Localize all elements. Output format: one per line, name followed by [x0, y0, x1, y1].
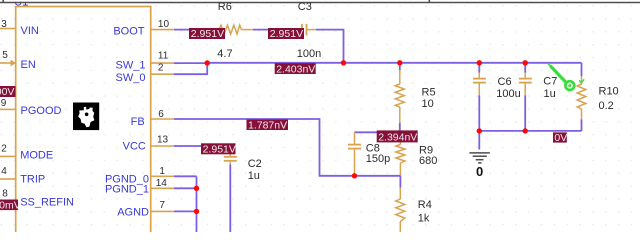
svg-text:0V: 0V: [554, 132, 567, 144]
wire VCC: [174, 146, 230, 154]
resistor R9: [396, 133, 405, 176]
svg-text:0: 0: [476, 164, 483, 179]
svg-text:8: 8: [2, 189, 8, 200]
svg-text:MODE: MODE: [20, 150, 53, 162]
svg-text:1k: 1k: [418, 212, 430, 224]
wire output bottom rail: [479, 130, 581, 132]
svg-text:SW_1: SW_1: [116, 60, 146, 72]
svg-text:3.00V: 3.00V: [0, 86, 14, 98]
wire PGND_1: [174, 187, 197, 189]
svg-text:2.951V: 2.951V: [203, 143, 236, 155]
svg-text:PGND_1: PGND_1: [105, 183, 149, 195]
node junction SW: [205, 60, 210, 65]
capacitor C8: [348, 132, 361, 175]
wire SW_0 up to SW_1: [174, 63, 207, 74]
svg-text:13: 13: [157, 135, 169, 146]
svg-text:VIN: VIN: [21, 25, 39, 37]
pin 7 stub AGND: [150, 210, 174, 212]
svg-text:BOOT: BOOT: [113, 26, 144, 38]
svg-text:R10: R10: [599, 86, 619, 98]
svg-text:10: 10: [422, 98, 434, 110]
label voltage 1.787nV FB: [247, 120, 289, 132]
pin 9 stub PGOOD: [0, 108, 16, 110]
pin 3 stub VIN: [0, 28, 16, 30]
svg-text:R5: R5: [422, 87, 436, 99]
svg-text:4.7: 4.7: [217, 48, 232, 60]
svg-text:6: 6: [158, 109, 164, 120]
capacitor C3: [302, 24, 316, 36]
wire C8 to R9 node: [355, 131, 401, 133]
wire SW_1: [174, 62, 207, 64]
label voltage 300mV clipped: [0, 199, 21, 211]
resistor R4: [396, 188, 405, 233]
node junction AGND: [194, 209, 199, 214]
pin 5 stub EN: [0, 62, 11, 64]
svg-text:150p: 150p: [366, 153, 390, 165]
wire C2 down: [229, 165, 231, 233]
svg-text:7: 7: [159, 200, 165, 211]
svg-text:0.2: 0.2: [599, 100, 614, 112]
voltage probe VOUT: [548, 63, 584, 90]
svg-text:2: 2: [1, 144, 7, 155]
svg-text:3: 3: [1, 19, 7, 30]
svg-text:5: 5: [2, 50, 8, 61]
pin 4 stub TRIP: [0, 178, 16, 180]
svg-text:C3: C3: [298, 1, 312, 13]
pin 11 stub SW_1: [150, 62, 174, 64]
ground: [469, 131, 489, 179]
svg-text:100u: 100u: [496, 88, 520, 100]
pin 10 stub BOOT: [150, 29, 174, 31]
svg-text:1u: 1u: [248, 170, 260, 182]
label voltage 2.951V boot left: [189, 28, 225, 40]
svg-text:PGOOD: PGOOD: [21, 105, 62, 117]
svg-text:1u: 1u: [544, 88, 556, 100]
svg-text:C7: C7: [543, 75, 557, 87]
IC U1 body: [16, 7, 151, 240]
svg-text:10: 10: [158, 19, 170, 30]
label voltage 2.951V boot right: [268, 28, 304, 40]
svg-text:C6: C6: [498, 76, 512, 88]
pin 1 stub PGND_0: [150, 175, 174, 177]
node junction PGND_1: [194, 186, 199, 191]
label voltage 0V: [553, 132, 567, 144]
wire PGND vertical: [196, 176, 198, 232]
svg-text:R4: R4: [418, 199, 432, 211]
svg-text:TRIP: TRIP: [20, 173, 45, 185]
wire FB: [174, 119, 401, 176]
svg-text:EN: EN: [21, 59, 36, 71]
wire PGND_0: [174, 175, 197, 177]
svg-text:FB: FB: [131, 116, 145, 128]
svg-text:1.787nV: 1.787nV: [248, 120, 287, 132]
label voltage 2.951V VCC: [201, 143, 236, 155]
pin 13 stub VCC: [150, 145, 174, 147]
svg-text:2: 2: [158, 63, 164, 74]
wire stub top-middle: [428, 0, 430, 3]
node junction R5 top: [397, 60, 402, 65]
pin 8 stub SS_REFIN: [0, 203, 16, 205]
TI logo: [73, 103, 99, 131]
resistor R10: [577, 63, 586, 131]
capacitor C7: [519, 63, 532, 131]
svg-text:11: 11: [158, 50, 169, 61]
label voltage 2.403nV SW: [275, 63, 316, 75]
label voltage 2.394nV: [377, 130, 418, 143]
pin 6 stub FB: [150, 118, 174, 120]
node junction C6 bottom: [477, 128, 482, 133]
svg-text:2.951V: 2.951V: [191, 28, 224, 40]
wire C3 to SW rail: [316, 30, 344, 63]
pin 5 EN arrow: [11, 60, 17, 66]
pin 2 stub SW_0: [150, 73, 174, 75]
wire R6 to C3: [253, 29, 300, 31]
node junction C7 bottom: [523, 128, 528, 133]
svg-text:14: 14: [156, 178, 168, 189]
svg-text:2.394nV: 2.394nV: [378, 131, 417, 143]
capacitor C2: [224, 154, 237, 165]
svg-text:680: 680: [419, 155, 437, 167]
wire R9 to R4: [399, 176, 401, 188]
wire AGND: [174, 210, 197, 212]
svg-text:100n: 100n: [297, 48, 321, 60]
svg-text:AGND: AGND: [117, 206, 149, 218]
svg-text:1: 1: [159, 166, 165, 177]
resistor R6: [213, 25, 253, 34]
pin 12 stub MODE: [0, 155, 16, 157]
svg-text:4: 4: [1, 166, 7, 177]
svg-text:SW_0: SW_0: [116, 72, 146, 84]
label voltage 3.00V VIN clipped: [0, 86, 16, 98]
pin 14 stub PGND_1: [150, 187, 174, 189]
svg-text:SS_REFIN: SS_REFIN: [20, 197, 74, 209]
svg-text:2.951V: 2.951V: [270, 28, 303, 40]
wire stub top-left: [2, 0, 4, 3]
svg-text:C2: C2: [248, 158, 262, 170]
svg-text:300mV: 300mV: [0, 199, 21, 211]
node junction C7 top: [523, 60, 528, 65]
resistor R5: [395, 63, 404, 133]
wire top horizontal net: [0, 2, 640, 4]
node junction boot corner: [341, 60, 346, 65]
node junction C8 bottom: [352, 173, 357, 178]
node junction C6 top: [477, 60, 482, 65]
capacitor C6: [473, 63, 486, 131]
svg-text:9: 9: [1, 98, 7, 109]
svg-text:VCC: VCC: [123, 141, 146, 153]
svg-text:R6: R6: [218, 1, 232, 13]
wire SW rail: [207, 62, 581, 64]
wire BOOT to R6: [174, 29, 216, 31]
svg-text:2.403nV: 2.403nV: [276, 63, 315, 75]
